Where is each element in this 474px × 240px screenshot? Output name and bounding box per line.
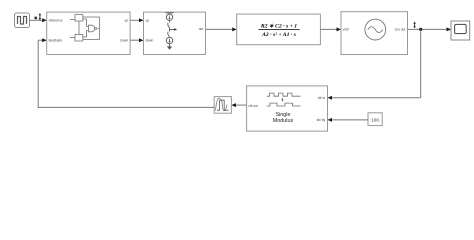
svg-text:A2 · s² + A1 · s: A2 · s² + A1 · s	[261, 32, 297, 38]
arrowhead into down port	[139, 38, 144, 42]
svg-text:vco out: vco out	[395, 28, 406, 32]
svg-text:div by: div by	[317, 118, 326, 122]
pulse generator icon	[18, 17, 27, 25]
wire junction down	[420, 29, 422, 97]
wire CP out to loop filter	[206, 28, 234, 30]
svg-text:Modulus: Modulus	[273, 118, 294, 124]
svg-text:reference: reference	[49, 19, 63, 23]
wire loop filter to VCO	[320, 28, 337, 30]
wire PFD down to CP down	[130, 39, 140, 41]
arrowhead into div by	[328, 118, 333, 122]
PFD icon flip-flop 2	[75, 35, 83, 42]
logged-signal badge vco out	[413, 22, 416, 24]
block sine to square converter	[214, 97, 231, 114]
divider icon down arrow	[282, 98, 284, 101]
junction node	[419, 28, 422, 31]
arrowhead into scope	[447, 27, 452, 31]
arrowhead into vctrl	[337, 27, 342, 31]
CP icon current source 2	[166, 37, 172, 43]
wire right to clk in	[331, 97, 421, 99]
PFD icon NAND gate	[89, 25, 95, 32]
svg-text:vctrl: vctrl	[343, 28, 349, 32]
CP icon switch 1	[169, 20, 171, 22]
VCO icon sine wave	[368, 27, 383, 33]
svg-text:feedback: feedback	[49, 39, 63, 43]
wire pulse to reference	[30, 19, 44, 21]
wire clk out to converter	[235, 104, 247, 106]
feedback wire left	[38, 106, 214, 108]
converter icon square wave	[217, 100, 229, 110]
arrowhead into reference port	[42, 18, 47, 22]
wire vco out to scope	[408, 28, 448, 30]
svg-text:out: out	[199, 27, 204, 31]
feedback wire into port	[38, 39, 43, 41]
block VCO	[341, 12, 408, 55]
arrowhead into feedback port	[42, 38, 47, 42]
block charge pump	[144, 12, 206, 54]
svg-text:clk in: clk in	[318, 96, 326, 100]
svg-text:up: up	[146, 19, 150, 23]
arrowhead into converter	[231, 103, 236, 107]
converter icon sine wave	[216, 98, 228, 110]
scope block	[451, 21, 470, 40]
wire 100 to div by	[331, 119, 368, 121]
constant block 100	[368, 113, 382, 126]
pulse generator block	[15, 13, 30, 28]
transfer function fraction bar	[259, 28, 300, 30]
divider icon slow wave	[267, 103, 301, 106]
svg-text:Single: Single	[276, 112, 291, 118]
svg-text:R2 ∗ C2 · s + 1: R2 ∗ C2 · s + 1	[260, 23, 297, 29]
arrowhead into loop filter	[232, 27, 237, 31]
arrowhead into up port	[139, 18, 144, 22]
block loop filter transfer function	[237, 14, 321, 45]
CP icon top rail	[166, 12, 174, 14]
svg-text:clk out: clk out	[248, 104, 258, 108]
CP icon ground	[169, 44, 171, 47]
CP icon switch 2	[168, 32, 170, 37]
arrowhead into clk in	[328, 96, 333, 100]
svg-text:up: up	[125, 19, 129, 23]
logged-signal badge (antenna)	[39, 13, 42, 15]
CP icon current source 1	[166, 14, 172, 20]
scope screen	[455, 24, 467, 33]
svg-text:down: down	[146, 39, 154, 43]
divider icon fast wave	[267, 93, 301, 96]
PFD icon connecting lines	[70, 17, 100, 40]
VCO icon oscillator circle	[365, 19, 386, 40]
svg-text:down: down	[120, 39, 128, 43]
CP icon output node	[169, 28, 171, 32]
feedback wire up	[37, 40, 39, 108]
logged-signal badge (asterisk)	[34, 16, 37, 19]
svg-text:100: 100	[371, 117, 379, 122]
block single modulus divider	[247, 86, 328, 131]
PFD icon flip-flop 1	[75, 15, 83, 22]
wire PFD up to CP up	[130, 19, 140, 21]
block PFD phase-frequency detector	[47, 12, 130, 54]
